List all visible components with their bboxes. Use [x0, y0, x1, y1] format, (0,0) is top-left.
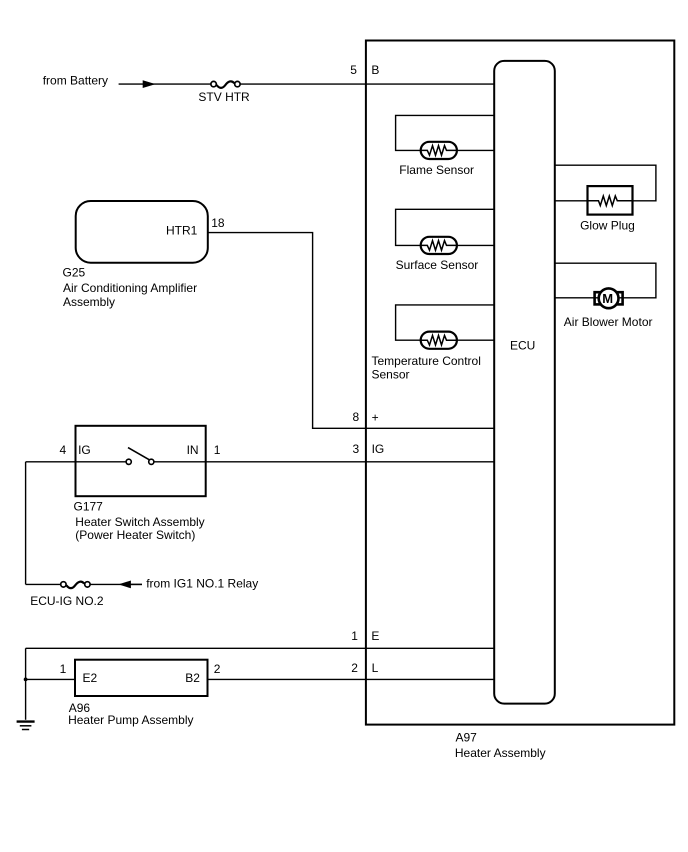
svg-text:STV HTR: STV HTR [198, 90, 250, 104]
svg-text:from IG1 NO.1 Relay: from IG1 NO.1 Relay [146, 577, 258, 591]
svg-text:2: 2 [351, 661, 358, 675]
svg-text:1: 1 [214, 443, 221, 457]
svg-text:G177: G177 [74, 500, 104, 514]
svg-text:B: B [371, 63, 379, 77]
svg-text:ECU: ECU [510, 339, 535, 353]
svg-text:1: 1 [60, 662, 67, 676]
svg-text:ECU-IG NO.2: ECU-IG NO.2 [30, 594, 104, 608]
svg-text:A97: A97 [456, 731, 478, 745]
svg-text:L: L [372, 661, 379, 675]
svg-text:Heater Pump Assembly: Heater Pump Assembly [68, 713, 193, 727]
svg-text:E: E [371, 629, 379, 643]
svg-text:Sensor: Sensor [372, 368, 410, 382]
svg-text:HTR1: HTR1 [166, 223, 198, 237]
svg-text:18: 18 [211, 216, 225, 230]
svg-text:B2: B2 [185, 671, 200, 685]
svg-text:Air Blower Motor: Air Blower Motor [564, 315, 653, 329]
svg-text:5: 5 [350, 63, 357, 77]
svg-text:Temperature Control: Temperature Control [372, 354, 481, 368]
svg-text:Glow Plug: Glow Plug [580, 219, 635, 233]
svg-text:M: M [602, 291, 613, 306]
svg-text:Air Conditioning Amplifier: Air Conditioning Amplifier [63, 281, 197, 295]
svg-text:+: + [372, 411, 379, 425]
svg-text:Heater Assembly: Heater Assembly [455, 746, 546, 760]
svg-text:E2: E2 [83, 671, 98, 685]
svg-text:Surface Sensor: Surface Sensor [396, 258, 479, 272]
svg-text:from Battery: from Battery [43, 73, 108, 87]
svg-text:IG: IG [372, 442, 385, 456]
svg-text:Flame Sensor: Flame Sensor [399, 163, 474, 177]
svg-text:2: 2 [214, 662, 221, 676]
svg-text:Assembly: Assembly [63, 295, 115, 309]
svg-text:3: 3 [353, 442, 360, 456]
svg-text:(Power Heater Switch): (Power Heater Switch) [75, 528, 195, 542]
svg-text:IN: IN [187, 443, 199, 457]
svg-text:8: 8 [353, 410, 360, 424]
svg-text:4: 4 [60, 443, 67, 457]
svg-text:IG: IG [78, 443, 91, 457]
svg-text:G25: G25 [63, 266, 86, 280]
svg-text:1: 1 [351, 629, 358, 643]
